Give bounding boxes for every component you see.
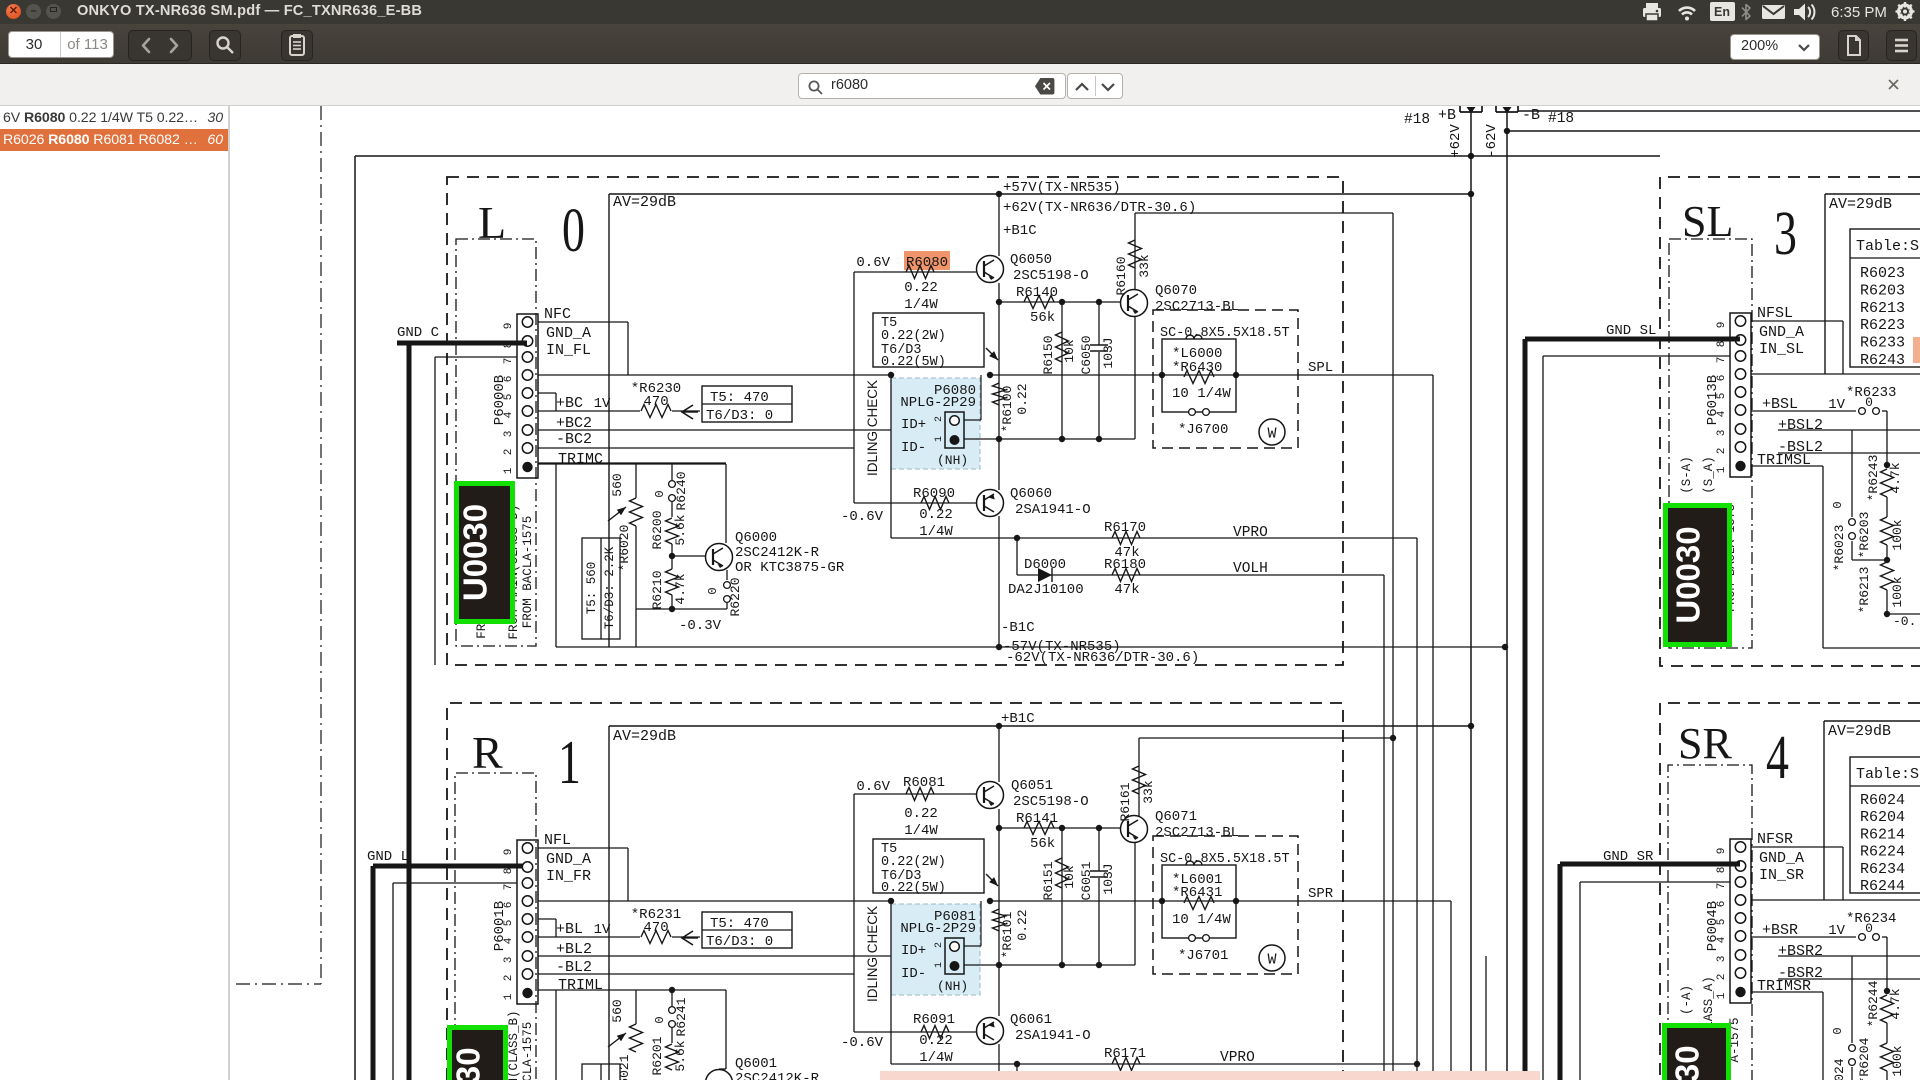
svg-text:47k: 47k — [1114, 582, 1139, 598]
svg-text:+B1C: +B1C — [1003, 223, 1037, 239]
svg-text:P6000B: P6000B — [492, 375, 508, 425]
svg-text:R6243: R6243 — [1860, 352, 1905, 369]
svg-text:1: 1 — [503, 467, 515, 474]
svg-text:0.22: 0.22 — [904, 280, 938, 296]
svg-text:-0.6V: -0.6V — [841, 509, 884, 525]
svg-text:ID-: ID- — [901, 440, 926, 456]
svg-text:470: 470 — [643, 920, 668, 936]
svg-text:R6091: R6091 — [913, 1012, 955, 1028]
svg-text:-BC2: -BC2 — [556, 431, 592, 448]
svg-text:4.7k: 4.7k — [1888, 462, 1903, 493]
svg-text:R6180: R6180 — [1104, 557, 1146, 573]
svg-text:U0030: U0030 — [1669, 1045, 1706, 1080]
svg-text:10k: 10k — [1062, 339, 1077, 363]
svg-text:3: 3 — [503, 431, 515, 438]
svg-text:R6160: R6160 — [1114, 256, 1129, 295]
svg-text:T5: 560: T5: 560 — [585, 562, 599, 615]
svg-text:ID-: ID- — [901, 966, 926, 982]
svg-text:+B: +B — [1438, 107, 1456, 124]
svg-text:0: 0 — [562, 195, 585, 264]
svg-text:R6244: R6244 — [1860, 878, 1905, 895]
svg-text:56k: 56k — [1030, 310, 1055, 326]
svg-text:0.22(2W): 0.22(2W) — [881, 855, 946, 870]
svg-text:4.7k: 4.7k — [673, 573, 688, 604]
svg-text:100k: 100k — [1890, 519, 1905, 550]
svg-text:U0030: U0030 — [457, 504, 494, 601]
svg-text:0.6V: 0.6V — [856, 779, 890, 795]
svg-text:T5: 470: T5: 470 — [710, 916, 769, 932]
svg-text:8: 8 — [1716, 341, 1728, 348]
svg-text:P6013B: P6013B — [1705, 375, 1721, 425]
svg-text:*R6431: *R6431 — [1172, 885, 1222, 901]
svg-text:R6201: R6201 — [650, 1036, 665, 1075]
svg-text:+57V(TX-NR535): +57V(TX-NR535) — [1003, 180, 1121, 196]
svg-text:103J: 103J — [1101, 337, 1116, 368]
svg-text:2: 2 — [503, 975, 515, 982]
svg-text:R6080: R6080 — [906, 255, 948, 271]
svg-text:*R6204: *R6204 — [1857, 1037, 1872, 1080]
svg-text:VOLH: VOLH — [1233, 561, 1268, 577]
svg-text:Q6051: Q6051 — [1011, 778, 1053, 794]
svg-text:+62V: +62V — [1448, 124, 1464, 158]
svg-text:GND_A: GND_A — [1759, 850, 1804, 867]
svg-text:R6021: R6021 — [617, 1054, 632, 1080]
svg-text:1: 1 — [1716, 466, 1728, 473]
svg-text:ID+: ID+ — [901, 943, 926, 959]
svg-text:DA2J10100: DA2J10100 — [1008, 582, 1084, 598]
svg-text:2SC5198-O: 2SC5198-O — [1013, 794, 1089, 810]
svg-text:2: 2 — [503, 449, 515, 456]
svg-text:TRIML: TRIML — [558, 977, 603, 994]
svg-text:Table:S: Table:S — [1856, 766, 1919, 783]
svg-text:NFSR: NFSR — [1757, 831, 1793, 848]
svg-text:Table:S: Table:S — [1856, 238, 1919, 255]
svg-text:T6/D3: 0: T6/D3: 0 — [706, 408, 773, 424]
svg-text:1: 1 — [934, 962, 945, 968]
svg-text:0.22(2W): 0.22(2W) — [881, 329, 946, 344]
svg-text:1V: 1V — [594, 922, 611, 938]
svg-text:2SC2713-BL: 2SC2713-BL — [1155, 825, 1239, 841]
svg-text:1: 1 — [1716, 992, 1728, 999]
svg-text:0.22(5W): 0.22(5W) — [881, 355, 946, 370]
svg-text:6024: 6024 — [1832, 1058, 1847, 1080]
svg-text:W: W — [1267, 426, 1276, 443]
svg-text:+B1C: +B1C — [1001, 711, 1035, 727]
svg-text:P6004B: P6004B — [1705, 901, 1721, 951]
svg-text:9: 9 — [503, 849, 515, 856]
svg-text:(S-A): (S-A) — [1680, 456, 1694, 494]
svg-text:AV=29dB: AV=29dB — [613, 728, 676, 745]
svg-text:8: 8 — [503, 868, 515, 875]
svg-text:2SC2713-BL: 2SC2713-BL — [1155, 299, 1239, 315]
svg-text:4.7k: 4.7k — [1888, 988, 1903, 1019]
svg-text:FROM MAIN(CLASS_B): FROM MAIN(CLASS_B) — [507, 1010, 521, 1080]
svg-text:C6051: C6051 — [1079, 861, 1094, 900]
svg-text:33k: 33k — [1141, 780, 1156, 804]
svg-text:Q6050: Q6050 — [1010, 252, 1052, 268]
svg-text:0: 0 — [706, 587, 720, 594]
svg-text:Q6071: Q6071 — [1155, 809, 1197, 825]
svg-text:470: 470 — [643, 394, 668, 410]
svg-text:7: 7 — [1716, 883, 1728, 890]
svg-text:L: L — [478, 197, 506, 248]
svg-text:1/4W: 1/4W — [904, 297, 938, 313]
svg-text:R6171: R6171 — [1104, 1046, 1146, 1062]
svg-text:0.6V: 0.6V — [856, 255, 890, 271]
svg-text:2SC2412K-R: 2SC2412K-R — [735, 1071, 820, 1080]
svg-text:Q6070: Q6070 — [1155, 283, 1197, 299]
svg-text:*R6213: *R6213 — [1857, 567, 1872, 614]
svg-text:*R6020: *R6020 — [617, 525, 632, 572]
svg-text:IN_FR: IN_FR — [546, 868, 591, 885]
svg-text:R6151: R6151 — [1041, 861, 1056, 900]
svg-text:#18: #18 — [1548, 111, 1574, 127]
svg-text:5.6k: 5.6k — [673, 1040, 688, 1071]
svg-text:+BL: +BL — [556, 921, 583, 938]
svg-text:3: 3 — [1716, 430, 1728, 437]
svg-text:*R6203: *R6203 — [1857, 512, 1872, 559]
svg-text:R6214: R6214 — [1860, 826, 1905, 843]
svg-text:NPLG-2P29: NPLG-2P29 — [900, 921, 976, 937]
svg-text:R6170: R6170 — [1104, 520, 1146, 536]
svg-text:#18: #18 — [1404, 112, 1430, 128]
svg-text:560: 560 — [610, 473, 625, 496]
svg-text:-0.: -0. — [1893, 614, 1916, 629]
svg-text:1V: 1V — [1828, 923, 1845, 939]
svg-text:R6210: R6210 — [650, 570, 665, 609]
svg-text:1: 1 — [558, 727, 581, 796]
svg-text:T5: 470: T5: 470 — [710, 390, 769, 406]
svg-text:FROM BACLA-1575: FROM BACLA-1575 — [521, 516, 535, 629]
svg-text:100k: 100k — [1890, 1045, 1905, 1076]
svg-text:SPR: SPR — [1308, 886, 1334, 902]
svg-text:2: 2 — [1716, 448, 1728, 455]
svg-text:*J6700: *J6700 — [1178, 422, 1228, 438]
svg-text:NFL: NFL — [544, 832, 571, 849]
svg-text:-0.3V: -0.3V — [679, 618, 722, 634]
svg-text:0.22: 0.22 — [1015, 909, 1030, 940]
svg-text:560: 560 — [610, 999, 625, 1022]
svg-text:+BSR2: +BSR2 — [1778, 943, 1823, 960]
svg-text:1V: 1V — [594, 396, 611, 412]
svg-text:P6001B: P6001B — [492, 901, 508, 951]
svg-text:IN_SL: IN_SL — [1759, 341, 1804, 358]
svg-text:SR: SR — [1678, 719, 1732, 768]
svg-text:IDLING CHECK: IDLING CHECK — [865, 380, 880, 476]
svg-text:R6203: R6203 — [1860, 282, 1905, 299]
svg-text:C6050: C6050 — [1079, 335, 1094, 374]
svg-text:+BSL2: +BSL2 — [1778, 417, 1823, 434]
svg-text:U0030: U0030 — [450, 1047, 487, 1080]
svg-text:NPLG-2P29: NPLG-2P29 — [900, 395, 976, 411]
svg-text:0: 0 — [653, 1016, 667, 1023]
svg-text:D6000: D6000 — [1024, 557, 1066, 573]
svg-text:(NH): (NH) — [937, 453, 968, 468]
svg-text:10 1/4W: 10 1/4W — [1172, 386, 1231, 402]
svg-text:*R6234: *R6234 — [1846, 911, 1896, 927]
svg-text:GND_A: GND_A — [546, 325, 591, 342]
svg-text:(NH): (NH) — [937, 979, 968, 994]
svg-text:R6223: R6223 — [1860, 317, 1905, 334]
svg-text:0.22: 0.22 — [904, 806, 938, 822]
svg-text:*R6023: *R6023 — [1832, 525, 1847, 572]
svg-text:*J6701: *J6701 — [1178, 948, 1228, 964]
svg-text:3: 3 — [1774, 198, 1797, 267]
svg-text:TRIMC: TRIMC — [558, 451, 603, 468]
svg-text:GND C: GND C — [397, 325, 439, 341]
svg-text:VPRO: VPRO — [1233, 525, 1268, 541]
svg-text:0.22(5W): 0.22(5W) — [881, 881, 946, 896]
svg-text:R6023: R6023 — [1860, 265, 1905, 282]
svg-text:2: 2 — [934, 416, 945, 422]
svg-text:2SC2412K-R: 2SC2412K-R — [735, 545, 820, 561]
svg-text:-B1C: -B1C — [1001, 620, 1035, 636]
svg-text:T6/D3: 2.2K: T6/D3: 2.2K — [603, 546, 617, 629]
svg-text:0.22: 0.22 — [919, 507, 953, 523]
svg-text:NFSL: NFSL — [1757, 305, 1793, 322]
svg-text:AV=29dB: AV=29dB — [1829, 196, 1892, 213]
svg-text:2SA1941-O: 2SA1941-O — [1015, 1028, 1091, 1044]
svg-text:R6200: R6200 — [650, 510, 665, 549]
svg-text:VPRO: VPRO — [1220, 1050, 1255, 1066]
svg-text:*R6101: *R6101 — [1000, 911, 1015, 958]
svg-text:-B: -B — [1522, 107, 1540, 124]
svg-text:7: 7 — [1716, 357, 1728, 364]
svg-text:7: 7 — [503, 884, 515, 891]
svg-text:0.22: 0.22 — [919, 1033, 953, 1049]
svg-text:R6024: R6024 — [1860, 792, 1905, 809]
svg-text:2SC5198-O: 2SC5198-O — [1013, 268, 1089, 284]
svg-text:103J: 103J — [1101, 863, 1116, 894]
svg-text:9: 9 — [503, 323, 515, 330]
svg-text:3: 3 — [1716, 956, 1728, 963]
svg-text:R6141: R6141 — [1016, 811, 1058, 827]
svg-text:*R6244: *R6244 — [1866, 980, 1881, 1027]
svg-text:0: 0 — [1831, 501, 1845, 508]
svg-text:1/4W: 1/4W — [904, 823, 938, 839]
svg-text:R6241: R6241 — [674, 997, 689, 1036]
svg-text:7: 7 — [503, 358, 515, 365]
svg-text:GND_A: GND_A — [1759, 324, 1804, 341]
svg-text:IN_SR: IN_SR — [1759, 867, 1804, 884]
svg-text:2: 2 — [1716, 974, 1728, 981]
svg-text:IN_FL: IN_FL — [546, 342, 591, 359]
svg-text:SPL: SPL — [1308, 360, 1333, 376]
svg-text:3: 3 — [503, 957, 515, 964]
svg-text:Q6001: Q6001 — [735, 1056, 777, 1072]
svg-text:AV=29dB: AV=29dB — [1828, 723, 1891, 740]
svg-text:0: 0 — [1831, 1027, 1845, 1034]
svg-text:(S_A): (S_A) — [1702, 456, 1716, 494]
svg-text:10 1/4W: 10 1/4W — [1172, 912, 1231, 928]
svg-text:ID+: ID+ — [901, 417, 926, 433]
svg-text:1: 1 — [503, 993, 515, 1000]
svg-text:56k: 56k — [1030, 836, 1055, 852]
svg-text:R6150: R6150 — [1041, 335, 1056, 374]
svg-text:R6224: R6224 — [1860, 844, 1905, 861]
svg-text:9: 9 — [1716, 848, 1728, 855]
svg-text:(-A): (-A) — [1680, 985, 1694, 1015]
svg-text:100k: 100k — [1890, 576, 1905, 607]
svg-text:9: 9 — [1716, 322, 1728, 329]
svg-text:R6140: R6140 — [1016, 285, 1058, 301]
svg-text:R6161: R6161 — [1118, 782, 1133, 821]
svg-text:R6233: R6233 — [1860, 335, 1905, 352]
svg-text:NFC: NFC — [544, 306, 571, 323]
svg-text:*R6100: *R6100 — [1000, 386, 1015, 433]
svg-text:R6240: R6240 — [674, 471, 689, 510]
svg-text:*R6233: *R6233 — [1846, 385, 1896, 401]
svg-text:AV=29dB: AV=29dB — [613, 194, 676, 211]
svg-text:FROM BACLA-1575: FROM BACLA-1575 — [521, 1022, 535, 1080]
svg-text:GND_A: GND_A — [546, 851, 591, 868]
svg-text:Q6000: Q6000 — [735, 530, 777, 546]
svg-text:-62V(TX-NR636/DTR-30.6): -62V(TX-NR636/DTR-30.6) — [1006, 650, 1199, 666]
svg-text:OR KTC3875-GR: OR KTC3875-GR — [735, 560, 845, 576]
svg-text:Q6060: Q6060 — [1010, 486, 1052, 502]
svg-text:R: R — [472, 727, 503, 778]
svg-text:2SA1941-O: 2SA1941-O — [1015, 502, 1091, 518]
svg-text:33k: 33k — [1137, 254, 1152, 278]
svg-text:2: 2 — [934, 942, 945, 948]
svg-text:1: 1 — [934, 436, 945, 442]
svg-text:4: 4 — [1766, 722, 1789, 791]
svg-text:-0.6V: -0.6V — [841, 1035, 884, 1051]
svg-text:8: 8 — [1716, 867, 1728, 874]
svg-text:R6234: R6234 — [1860, 861, 1905, 878]
svg-text:T6/D3: 0: T6/D3: 0 — [706, 934, 773, 950]
svg-text:0: 0 — [653, 490, 667, 497]
svg-text:W: W — [1267, 952, 1276, 969]
svg-text:R6220: R6220 — [728, 577, 743, 616]
svg-text:Q6061: Q6061 — [1010, 1012, 1052, 1028]
svg-text:5.6k: 5.6k — [673, 514, 688, 545]
svg-text:U0030: U0030 — [1670, 526, 1707, 623]
svg-text:R6213: R6213 — [1860, 300, 1905, 317]
svg-text:R6204: R6204 — [1860, 809, 1905, 826]
svg-text:*R6243: *R6243 — [1866, 455, 1881, 502]
svg-text:IDLING CHECK: IDLING CHECK — [865, 906, 880, 1002]
svg-text:R6090: R6090 — [913, 486, 955, 502]
svg-text:0.22: 0.22 — [1015, 383, 1030, 414]
svg-text:En: En — [1714, 5, 1730, 19]
svg-text:1V: 1V — [1828, 397, 1845, 413]
svg-text:6:35 PM: 6:35 PM — [1831, 4, 1887, 21]
svg-text:10k: 10k — [1062, 865, 1077, 889]
svg-text:GND L: GND L — [367, 849, 409, 865]
svg-text:+BC: +BC — [556, 395, 583, 412]
svg-text:-62V: -62V — [1484, 124, 1500, 158]
